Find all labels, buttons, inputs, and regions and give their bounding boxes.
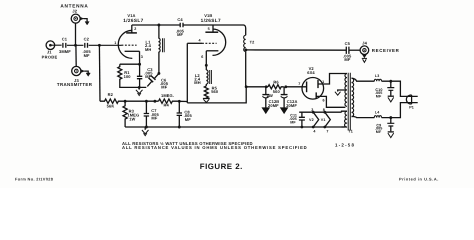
transformer T1 core: [348, 73, 350, 131]
wire T1 primary bottom to L4: [352, 116, 375, 117]
capacitor C3: [137, 76, 142, 78]
wire L4 to P1 bottom: [382, 103, 412, 118]
svg-text:C1: C1: [62, 37, 68, 42]
node ground wire junction: [138, 86, 141, 89]
label C6 .005 MF: [160, 78, 169, 90]
resistor R1: [118, 64, 122, 81]
svg-text:7: 7: [298, 82, 300, 86]
capacitor C6 (tilted): [147, 73, 159, 86]
inductor L1: [158, 25, 164, 73]
label C12A 20MF: [286, 99, 297, 108]
label C1 3MMF: [59, 37, 71, 55]
resistor R6: [268, 85, 284, 89]
label J4 RECEIVER: [362, 41, 399, 53]
plug P1: [406, 95, 417, 104]
wire U-link to B+ junction: [187, 87, 246, 103]
svg-text:J2: J2: [72, 9, 77, 14]
node L2 top: [205, 64, 208, 67]
svg-text:MF: MF: [376, 130, 382, 134]
wire main input line J1 to V1A grid: [50, 44, 121, 46]
wire L3 to P1 top: [382, 81, 412, 96]
label R1 100: [124, 70, 132, 79]
svg-text:20MF: 20MF: [268, 103, 279, 108]
capacitor C4: [180, 23, 183, 28]
svg-text:MH: MH: [194, 80, 200, 85]
svg-text:MF: MF: [290, 120, 296, 124]
label C8 .005 MF: [184, 109, 193, 122]
wire T1 center tap: [338, 90, 346, 92]
tube V1A cathode: [125, 50, 140, 52]
connector J3: [72, 66, 81, 75]
wire C5 to J4: [349, 49, 360, 51]
label C10 .005 MF: [375, 88, 383, 99]
label R4 1MEG.: [161, 93, 174, 108]
svg-text:1: 1: [114, 41, 116, 45]
ground below R5: [203, 98, 210, 103]
tube V1A grid (dashed): [122, 44, 137, 46]
capacitor C9: [387, 118, 394, 132]
resistor R3: [123, 101, 127, 127]
node C10 top: [389, 80, 392, 83]
node L1 bottom junction: [157, 72, 160, 75]
svg-text:6X4: 6X4: [307, 70, 315, 75]
wire B+ rail to R6: [246, 86, 268, 88]
svg-text:1/26SL7: 1/26SL7: [123, 18, 143, 23]
wire V1A plate lead to top rail: [131, 25, 133, 33]
ground below R1/C3: [136, 87, 143, 95]
wire cathode junction to R1: [120, 63, 140, 65]
svg-text:MF: MF: [151, 116, 157, 121]
heater rail top: [299, 111, 341, 113]
resistor R4: [159, 99, 180, 103]
node T2 bottom B+ junction: [245, 85, 248, 88]
svg-text:56K: 56K: [107, 104, 115, 109]
svg-text:5: 5: [208, 27, 210, 31]
svg-text:J4: J4: [362, 41, 367, 46]
note text: [122, 141, 307, 150]
svg-text:C2: C2: [84, 37, 90, 42]
label V2 6X4: [307, 66, 315, 75]
svg-text:1W: 1W: [129, 116, 135, 121]
label L2 2.4 MH: [194, 73, 201, 85]
svg-text:MH: MH: [145, 47, 151, 52]
transformer T1 heater winding: [345, 111, 347, 127]
capacitor C12B (electrolytic): [262, 87, 269, 114]
connector J2: [71, 14, 80, 23]
ground below J4: [362, 55, 367, 63]
heater V2 filament: [313, 112, 319, 127]
svg-text:1/26SL7: 1/26SL7: [201, 18, 221, 23]
svg-text:V2: V2: [309, 118, 314, 122]
wire V1B plate lead to rail: [212, 25, 214, 32]
svg-text:MF: MF: [177, 32, 183, 37]
label R6 560 2W: [267, 79, 281, 98]
svg-text:FIGURE 2.: FIGURE 2.: [200, 162, 243, 171]
capacitor C8: [177, 101, 182, 127]
wire V2 plate lower to T1 bottom: [316, 96, 345, 107]
tube V1A plate: [126, 32, 137, 34]
svg-text:560: 560: [273, 89, 281, 94]
label C7 .005 MF: [151, 108, 160, 121]
wire junction down to J3: [75, 45, 77, 66]
wire receiver line T2 to C5: [246, 49, 346, 51]
ground below C9: [388, 132, 394, 138]
tube V1B cathode: [206, 50, 218, 52]
svg-text:1MEG.: 1MEG.: [161, 93, 174, 98]
node R2/R3 junction: [124, 100, 127, 103]
resistor R5: [204, 86, 208, 99]
wire R2 leg down from C2 node: [98, 45, 101, 101]
ground rail (main): [125, 126, 344, 128]
svg-text:3: 3: [311, 108, 313, 112]
connector J1: [46, 41, 55, 50]
svg-text:1-2-58: 1-2-58: [335, 142, 355, 147]
wire B+ to V2 cathode: [286, 86, 307, 88]
svg-text:MF: MF: [185, 117, 191, 122]
capacitor C10: [387, 81, 394, 95]
wire C3 leads: [139, 64, 141, 87]
node cathode junction: [138, 63, 141, 66]
svg-text:T1: T1: [348, 128, 354, 133]
svg-text:PROBE: PROBE: [42, 54, 58, 59]
transformer T1 HV winding: [345, 74, 347, 107]
capacitor C2: [85, 43, 88, 48]
ground at J3: [81, 70, 90, 77]
ground T1 center tap: [335, 92, 341, 96]
node C2 output junction: [98, 44, 101, 47]
svg-text:C4: C4: [177, 17, 183, 22]
svg-text:ALL RESISTANCE VALUES IN OHMS: ALL RESISTANCE VALUES IN OHMS UNLESS OTH…: [122, 145, 307, 150]
svg-text:RECEIVER: RECEIVER: [372, 48, 400, 53]
tube V1B grid (dashed): [202, 42, 217, 44]
label C4 .005 MF: [176, 17, 185, 37]
wire T1 primary top to L3: [352, 78, 375, 81]
wire V1B grid vertical to bias node: [186, 43, 188, 103]
label J3 TRANSMITTER: [57, 78, 93, 87]
inductor T2: [244, 35, 246, 87]
svg-text:T2: T2: [250, 40, 255, 45]
node heater junctions: [312, 111, 315, 114]
svg-text:R6: R6: [273, 79, 279, 84]
inductor L2: [206, 70, 211, 86]
label C2 .005 MF: [82, 37, 91, 59]
svg-text:Printed in U.S.A.: Printed in U.S.A.: [399, 176, 439, 181]
node C7 bottom: [145, 126, 148, 129]
svg-text:1: 1: [322, 80, 324, 84]
resistor R2: [100, 99, 125, 103]
node C1/C2/J2/J3 junction: [74, 44, 77, 47]
ground below rail: [142, 127, 149, 136]
node R4 left: [153, 100, 156, 103]
label R2 56K: [107, 92, 115, 108]
tube V1A envelope arc: [118, 30, 132, 58]
svg-text:3MMF: 3MMF: [59, 49, 71, 54]
svg-text:L4: L4: [375, 111, 379, 115]
label V1A half 6SL7: [123, 13, 143, 23]
svg-text:MF: MF: [161, 85, 167, 90]
inductor L3: [374, 79, 381, 81]
svg-text:R4: R4: [164, 103, 170, 108]
tube V1B envelope arc: [213, 29, 226, 55]
label R3 1MEG 1W: [127, 108, 139, 121]
node L1 top: [157, 24, 160, 27]
svg-text:2: 2: [134, 27, 136, 31]
label R5 560: [211, 85, 219, 94]
transformer T1 primary winding: [352, 78, 354, 117]
heater V1 filament: [325, 112, 331, 127]
label C12B 20MF: [268, 99, 279, 108]
capacitor C5: [346, 47, 349, 54]
svg-text:MF: MF: [376, 94, 382, 98]
svg-text:6: 6: [323, 98, 325, 102]
node C7 top: [145, 100, 148, 103]
svg-text:6: 6: [201, 55, 203, 59]
wire heater winding leads: [342, 111, 348, 127]
node C9 top: [389, 116, 392, 119]
node C12B top: [265, 85, 268, 88]
wire V2 plate upper to T1 top: [318, 74, 347, 85]
svg-text:100: 100: [124, 74, 132, 79]
label L1 2.4 MH: [145, 40, 152, 52]
svg-text:560: 560: [211, 89, 219, 94]
wire V1B grid lead: [187, 42, 202, 44]
capacitor C12A (electrolytic): [281, 87, 288, 114]
wire J2 down to junction: [75, 23, 77, 45]
wire V1B cathode lead down to L2: [205, 51, 207, 70]
svg-text:TRANSMITTER: TRANSMITTER: [57, 82, 93, 87]
node C8 bottom: [178, 126, 181, 129]
svg-text:MF: MF: [84, 53, 90, 58]
tube V2 cathode: [306, 82, 308, 93]
tube V2 plate lower: [315, 92, 317, 98]
wire top rail V1A plate to T2: [132, 25, 246, 35]
label C9 .005 MF: [375, 123, 383, 134]
svg-text:Form No. 2I1V028: Form No. 2I1V028: [15, 176, 54, 181]
label V1B half 6SL7: [201, 13, 221, 23]
svg-text:P1: P1: [409, 106, 414, 110]
node R4 right / C8: [178, 100, 181, 103]
wire R1 bottom to ground wire: [120, 82, 147, 88]
ground at J2: [80, 17, 89, 25]
capacitor C1: [63, 43, 66, 48]
label C5 .005 MF: [343, 41, 352, 62]
svg-text:R2: R2: [108, 92, 114, 97]
label C3 .005 MF: [144, 67, 153, 79]
svg-text:V1: V1: [321, 118, 326, 122]
connector J4: [360, 46, 369, 55]
svg-text:C5: C5: [345, 41, 351, 46]
wire bias rail R2 node to R4: [125, 100, 158, 102]
inductor L4: [374, 116, 381, 118]
label C11 .005 MF: [289, 114, 297, 125]
tube V2 envelope: [302, 78, 324, 100]
tube V1B plate: [205, 31, 218, 33]
label J1 PROBE: [42, 50, 58, 60]
label ANTENNA J2: [60, 4, 88, 14]
svg-text:8: 8: [323, 108, 325, 112]
node C12A top: [284, 85, 287, 88]
svg-text:3: 3: [141, 55, 143, 59]
capacitor C11: [299, 112, 305, 127]
svg-text:MF: MF: [344, 57, 350, 62]
ground below C10: [388, 96, 394, 102]
capacitor C7: [144, 101, 149, 127]
svg-text:7: 7: [326, 129, 328, 133]
wire grid stub to R4/C8 node: [179, 100, 187, 102]
svg-text:L3: L3: [375, 74, 379, 78]
tube V2 plate upper: [317, 80, 319, 88]
svg-text:20MF: 20MF: [286, 103, 297, 108]
node T2 tap to receiver: [244, 48, 247, 51]
wire V1A cathode lead down: [139, 51, 141, 64]
